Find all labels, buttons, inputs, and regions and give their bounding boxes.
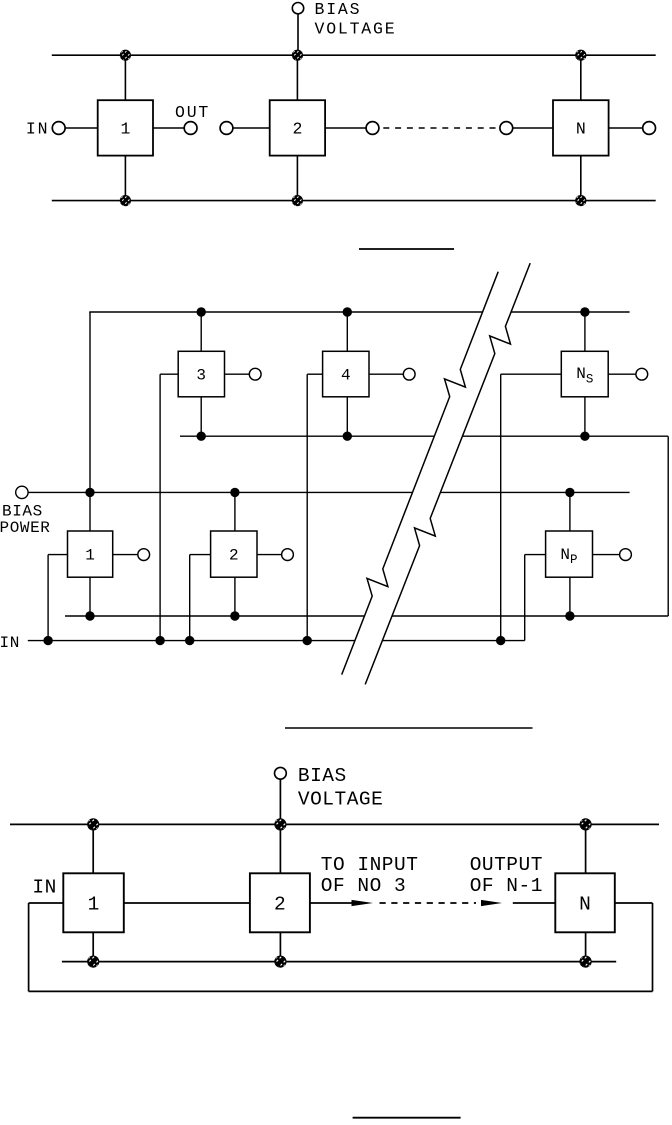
svg-text:TO INPUT: TO INPUT [321, 854, 419, 876]
svg-text:OF NO 3: OF NO 3 [321, 875, 406, 897]
svg-text:1: 1 [85, 547, 95, 565]
svg-text:1: 1 [88, 893, 100, 915]
svg-text:IN: IN [0, 634, 20, 652]
svg-text:OUTPUT: OUTPUT [470, 854, 543, 876]
svg-text:4: 4 [341, 366, 351, 384]
svg-text:VOLTAGE: VOLTAGE [315, 19, 397, 38]
svg-text:1: 1 [120, 120, 130, 139]
svg-text:N: N [579, 893, 591, 915]
svg-text:BIAS: BIAS [298, 765, 347, 787]
svg-text:POWER: POWER [0, 519, 51, 537]
svg-text:3: 3 [196, 366, 206, 384]
svg-text:BIAS: BIAS [315, 0, 362, 19]
svg-text:N: N [576, 120, 586, 139]
svg-text:2: 2 [229, 547, 239, 565]
svg-text:2: 2 [292, 120, 302, 139]
svg-text:OF N-1: OF N-1 [470, 875, 543, 897]
svg-text:IN: IN [32, 877, 56, 899]
svg-text:VOLTAGE: VOLTAGE [298, 788, 383, 810]
svg-text:IN: IN [26, 120, 49, 139]
svg-text:2: 2 [274, 893, 286, 915]
svg-text:OUT: OUT [175, 103, 210, 122]
svg-text:BIAS: BIAS [2, 502, 43, 520]
